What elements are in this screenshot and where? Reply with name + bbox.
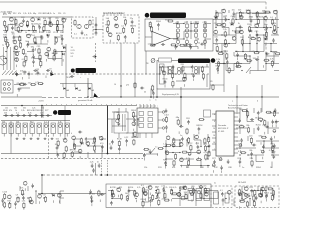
resistor (158, 199, 160, 200)
wire (250, 190, 258, 192)
svg-text:R12: R12 (250, 187, 255, 189)
capacitor (193, 73, 195, 75)
wire stub (251, 157, 253, 160)
left of IC G pins (208, 137, 211, 158)
svg-text:gesamtzeit 30 mA: gesamtzeit 30 mA (78, 99, 93, 102)
junction (235, 19, 236, 20)
wire (267, 128, 269, 134)
resistor (248, 127, 250, 128)
svg-text:BF194: BF194 (197, 125, 204, 127)
resistor (257, 18, 259, 19)
capacitor (110, 145, 112, 147)
wire (270, 51, 272, 54)
wire (179, 191, 181, 199)
svg-text:a: a (66, 104, 67, 106)
junction (239, 147, 240, 148)
svg-text:2,2k: 2,2k (32, 108, 35, 110)
junction (197, 23, 198, 24)
junction (207, 165, 208, 166)
capacitor (251, 152, 253, 154)
wire (49, 17, 51, 25)
wire (207, 134, 209, 140)
junction (111, 190, 112, 191)
svg-text:C55: C55 (265, 187, 270, 189)
capacitor (175, 45, 177, 47)
wire (249, 35, 251, 44)
svg-text:220: 220 (191, 186, 195, 188)
svg-text:MW: MW (71, 53, 74, 55)
wire (88, 145, 95, 147)
wire y13.5 right (252, 13, 266, 15)
wire (205, 23, 211, 25)
wire stub (152, 96, 154, 99)
svg-text:4,7k: 4,7k (84, 35, 88, 37)
transistor (257, 37, 261, 41)
wire (204, 190, 218, 192)
svg-text:p70: p70 (126, 85, 129, 87)
junction (257, 190, 258, 191)
wire stub (133, 117, 135, 120)
wire stub (257, 23, 259, 26)
resistor (265, 31, 267, 32)
resistor (226, 53, 228, 54)
wire stub (173, 165, 175, 168)
svg-text:1,2k: 1,2k (148, 43, 152, 45)
wire (59, 198, 61, 204)
tuner chain row (4, 113, 50, 117)
wire (249, 71, 251, 75)
wire stub (275, 125, 277, 128)
transistor (222, 23, 226, 27)
transistor (180, 158, 184, 162)
svg-text:40: 40 (144, 92, 146, 94)
left bottom wiring (16, 186, 64, 204)
wire stub (20, 30, 22, 33)
wire (3, 58, 6, 60)
junction (5, 36, 6, 37)
wire stub (200, 192, 202, 195)
wire (257, 186, 259, 191)
svg-text:TA: TA (71, 46, 74, 49)
wire (274, 70, 279, 72)
resistor (39, 54, 41, 55)
wire stub (124, 24, 126, 27)
wire main horizontal spine y97 (1, 96, 42, 98)
wire (271, 51, 277, 53)
capacitor (256, 33, 258, 35)
RF left wiring mesh 2 (3, 35, 66, 66)
wire (213, 43, 216, 45)
capacitor (126, 139, 128, 141)
resistor (126, 195, 128, 196)
svg-text:10k: 10k (123, 17, 126, 19)
svg-text:5k6: 5k6 (16, 121, 19, 123)
wire (242, 55, 250, 57)
wire stub (152, 199, 154, 202)
RF front-end top row (4, 17, 68, 33)
svg-text:Regelspannung 6,3V: Regelspannung 6,3V (162, 94, 180, 96)
wire stub (49, 25, 51, 28)
wire (163, 191, 165, 199)
transistor (63, 139, 67, 143)
wire (95, 145, 102, 147)
wire (184, 30, 191, 32)
resistor (264, 120, 266, 121)
svg-text:1k: 1k (270, 167, 272, 169)
capacitor (257, 111, 259, 113)
resistor (182, 66, 184, 67)
wire (276, 51, 278, 54)
svg-text:0,22: 0,22 (189, 143, 194, 145)
wire (56, 31, 58, 34)
resistor (216, 24, 217, 26)
wire (165, 147, 167, 153)
second RF row (3, 34, 63, 51)
wire (54, 52, 56, 59)
wire stub (196, 142, 198, 145)
wire (14, 84, 20, 86)
diode (231, 23, 233, 25)
wire stub (247, 116, 249, 119)
resistor (30, 83, 31, 85)
capacitor (239, 160, 241, 162)
wire (34, 58, 41, 60)
resistor (256, 11, 258, 12)
transistor (62, 18, 66, 22)
capacitor (237, 53, 239, 55)
wire (273, 191, 275, 199)
junction x237 y97 (236, 96, 237, 97)
capacitor (39, 25, 41, 27)
capacitor (156, 194, 158, 196)
junction y105 x42 (41, 105, 43, 107)
wire (163, 146, 166, 148)
svg-text:C9: C9 (63, 13, 65, 15)
diode (52, 194, 54, 196)
wire (173, 146, 180, 148)
resistor (22, 48, 24, 49)
resistor (201, 66, 203, 67)
resistor in box A right (89, 20, 91, 21)
wire (14, 17, 16, 25)
block B contents (105, 16, 137, 42)
svg-text:330: 330 (270, 144, 274, 146)
wire stub (180, 165, 182, 168)
capacitor (144, 153, 146, 155)
junction (271, 154, 272, 155)
mid box interior (116, 112, 120, 126)
junction (73, 145, 74, 146)
svg-text:R204: R204 (256, 167, 262, 169)
svg-text:1n: 1n (180, 135, 182, 137)
wire stub (6, 31, 8, 34)
capacitor (265, 126, 267, 128)
svg-text:1,2k: 1,2k (23, 13, 27, 15)
wire (236, 112, 240, 114)
wire (191, 23, 198, 25)
wire stub (149, 193, 151, 196)
wire (179, 140, 181, 147)
svg-text:C9: C9 (222, 23, 225, 25)
wire (266, 55, 274, 57)
capacitor (34, 115, 36, 117)
junction (54, 43, 55, 44)
wire (208, 146, 210, 148)
resistor (196, 159, 197, 161)
wire right vertical from top rail (265, 2, 267, 56)
junction (61, 51, 62, 52)
junction (200, 146, 201, 147)
capacitor (90, 195, 92, 197)
wire stub (225, 50, 227, 53)
capacitor (184, 44, 186, 46)
capacitor (61, 37, 63, 39)
wire stub (172, 86, 174, 89)
band I1 parts (220, 190, 231, 206)
svg-text:10k: 10k (183, 186, 186, 188)
svg-text:15k: 15k (62, 46, 65, 48)
resistor (172, 72, 174, 73)
electrolytic capacitor (191, 193, 194, 196)
resistor (273, 111, 275, 112)
svg-text:C9: C9 (14, 46, 17, 48)
parts left edge of E (212, 84, 214, 85)
wire stub (256, 31, 258, 34)
svg-text:C113: C113 (264, 37, 270, 39)
svg-text:0,1: 0,1 (74, 34, 77, 36)
svg-text:2,2k: 2,2k (90, 162, 94, 164)
transistor (31, 18, 35, 22)
svg-text:100: 100 (214, 36, 218, 38)
wire stub (241, 44, 243, 47)
wire stub (45, 76, 47, 79)
wire (216, 19, 222, 21)
wire (233, 64, 235, 71)
dashed box preamp A (72, 17, 94, 38)
svg-text:1,2k: 1,2k (21, 110, 25, 112)
svg-text:1n: 1n (97, 162, 99, 164)
wire (247, 136, 249, 141)
wire (197, 47, 199, 50)
resistor (27, 20, 29, 21)
wire stub (16, 59, 18, 62)
svg-text:1n: 1n (260, 150, 262, 152)
wire (222, 34, 229, 36)
capacitor (27, 43, 29, 45)
top component label row (3, 13, 65, 15)
wire (263, 44, 265, 52)
svg-text:4,7k: 4,7k (270, 59, 274, 61)
resistor (22, 189, 24, 190)
resistor (124, 19, 126, 20)
capacitor (226, 60, 228, 62)
ground (23, 138, 25, 139)
wire stub (57, 145, 59, 148)
electrolytic capacitor (238, 193, 241, 196)
junction (215, 27, 216, 28)
wire (265, 191, 267, 199)
wire stub (99, 200, 101, 203)
box H contents (110, 188, 138, 206)
wire stub (228, 197, 230, 200)
svg-text:R12: R12 (21, 194, 26, 196)
capacitor (222, 198, 224, 200)
svg-text:AA: AA (67, 89, 70, 92)
resistor (117, 35, 119, 36)
svg-text:C88: C88 (228, 167, 233, 169)
wire (257, 19, 264, 21)
svg-text:4,7k: 4,7k (35, 82, 39, 84)
svg-text:LW: LW (71, 56, 74, 58)
capacitor x96 chain lower (95, 31, 97, 33)
svg-text:b: b (257, 101, 258, 103)
wire (208, 165, 210, 167)
wire stub (260, 201, 262, 204)
wire (34, 36, 41, 38)
capacitor (85, 137, 87, 139)
resistor (134, 190, 136, 191)
wire stub (63, 157, 65, 160)
wire stub (221, 170, 223, 173)
wire (257, 56, 259, 64)
wire (274, 55, 279, 57)
wire (27, 43, 34, 45)
wire (57, 30, 63, 32)
left bottom upper parts (20, 181, 34, 196)
wire (246, 108, 248, 113)
capacitor mid x142 (140, 87, 142, 89)
capacitor (22, 196, 24, 198)
resistor (132, 27, 134, 28)
svg-text:22n: 22n (108, 33, 111, 35)
wire op-amp input (145, 36, 152, 38)
electrolytic capacitor (261, 150, 264, 153)
svg-text:33k: 33k (246, 125, 249, 127)
sparse mid low (90, 162, 101, 173)
svg-text:68p: 68p (264, 24, 268, 26)
svg-text:22n: 22n (130, 18, 133, 20)
wire stub (265, 44, 267, 47)
wire (216, 51, 222, 53)
wire stub (250, 23, 252, 26)
mixer-oscillator row (14, 46, 66, 68)
mid parts near relay (176, 117, 205, 134)
svg-text:R31: R31 (186, 118, 191, 120)
wire (192, 73, 200, 75)
wire (225, 64, 227, 71)
transistor (23, 181, 27, 185)
svg-text:R12: R12 (30, 121, 33, 123)
svg-text:330: 330 (184, 192, 188, 194)
capacitor (181, 137, 183, 139)
transistor Q1 in box A (77, 24, 81, 28)
wire stub (32, 53, 34, 56)
svg-text:10k: 10k (60, 35, 63, 37)
wire vertical x121 (120, 43, 122, 97)
capacitor (22, 115, 24, 117)
wire (243, 19, 250, 21)
wire (263, 141, 265, 148)
wire (180, 198, 188, 200)
capacitor (164, 80, 166, 82)
resistor (171, 189, 173, 190)
resistor ladder (186, 21, 188, 24)
wire stub (264, 132, 266, 135)
svg-text:0,1: 0,1 (121, 25, 125, 27)
wire stub (118, 152, 120, 155)
AF bus labels row (144, 167, 272, 169)
capacitor (163, 187, 165, 189)
wire stub (272, 195, 274, 198)
wire stub (56, 151, 58, 154)
resistor (239, 11, 241, 12)
svg-text:NF 2x6W: NF 2x6W (238, 182, 246, 184)
wire stub (262, 157, 264, 160)
resistor (107, 20, 109, 21)
resistor (63, 152, 65, 153)
wire (13, 36, 20, 38)
wire (256, 161, 264, 163)
capacitor (227, 159, 229, 161)
svg-text:1k: 1k (238, 23, 240, 25)
wire (194, 165, 201, 167)
wire stub (239, 30, 241, 33)
resistor (4, 20, 6, 21)
wire (186, 166, 188, 169)
junction (256, 51, 257, 52)
svg-text:a: a (232, 101, 234, 103)
resistor (224, 39, 226, 40)
tuner labels row (3, 108, 48, 113)
wire stub (204, 143, 206, 146)
svg-text:0,22: 0,22 (37, 23, 42, 25)
wire stub (191, 199, 193, 202)
svg-text:15k: 15k (144, 167, 147, 169)
wire (208, 152, 210, 154)
junction (217, 70, 218, 71)
resistor (158, 147, 159, 149)
mid label row (4, 32, 63, 34)
svg-text:4,7k: 4,7k (203, 143, 207, 145)
svg-text:220: 220 (250, 158, 254, 160)
wire (55, 51, 62, 53)
junction (171, 190, 172, 191)
wire stub (118, 145, 120, 148)
svg-text:47k: 47k (9, 110, 12, 112)
wire (165, 140, 167, 147)
capacitor (16, 115, 18, 117)
capacitor (198, 127, 200, 129)
electrolytic capacitor (219, 158, 222, 161)
resistor (205, 154, 207, 155)
label chip PK (black) (76, 68, 97, 73)
wire (204, 39, 206, 47)
wire stub (2, 203, 4, 206)
junction (179, 146, 180, 147)
junction (179, 190, 180, 191)
wire (61, 37, 63, 44)
wire stub (33, 64, 35, 67)
resistor (152, 85, 154, 86)
transistor (214, 30, 218, 34)
ground (51, 138, 53, 139)
junction (43, 197, 44, 198)
svg-text:330: 330 (116, 112, 120, 114)
wire stub (15, 53, 17, 56)
wire vertical x151 (150, 89, 152, 98)
transistor (255, 24, 259, 28)
wire bus y120.5 tuner row (1, 120, 70, 122)
